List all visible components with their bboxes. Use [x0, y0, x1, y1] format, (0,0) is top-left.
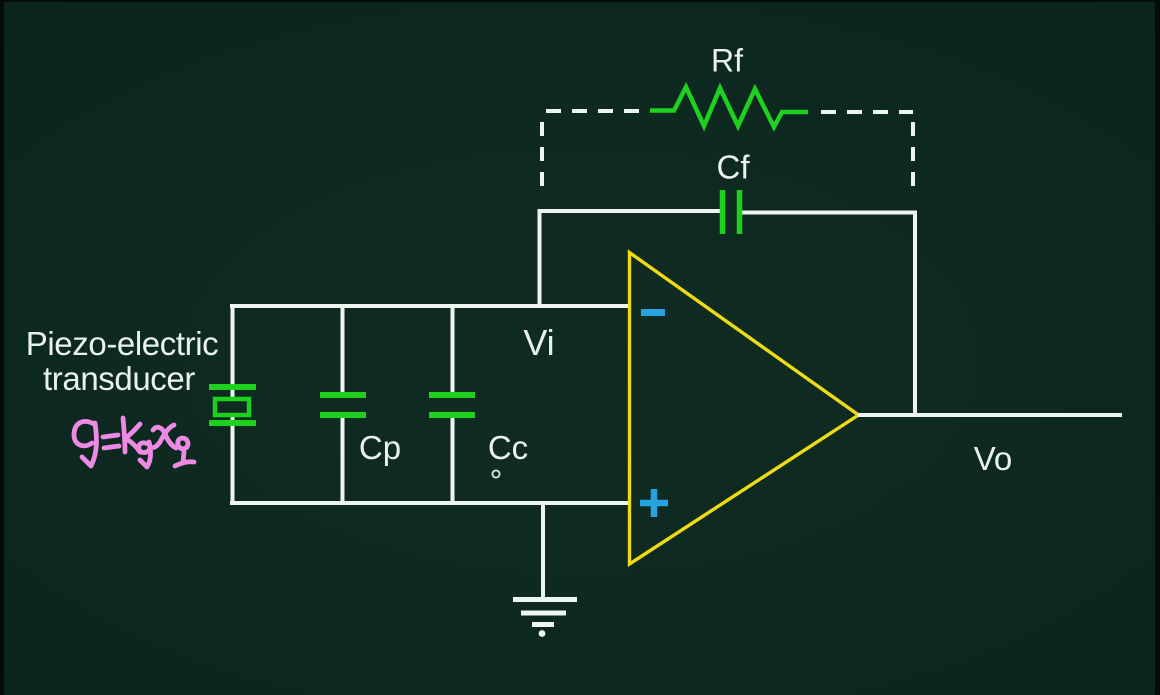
wire: ground stub — [541, 503, 545, 599]
ground — [513, 600, 577, 637]
black border bar right — [1155, 0, 1160, 695]
op-amp U1 — [630, 253, 859, 565]
wire: piezo branch lower segment — [231, 414, 235, 505]
formula q = kq xi (magenta handwriting) — [74, 418, 194, 467]
wire: non-inverting-input bottom rail — [230, 501, 629, 505]
piezo-electric transducer symbol — [209, 387, 256, 423]
wire: dashed box right vertical — [911, 122, 915, 197]
svg-text:Rf: Rf — [711, 43, 743, 79]
svg-text:Vo: Vo — [974, 440, 1013, 477]
svg-text:Piezo-electric: Piezo-electric — [26, 325, 218, 362]
svg-text:Cp: Cp — [359, 429, 401, 466]
wire: Cc branch upper segment — [451, 304, 455, 393]
svg-text:transducer: transducer — [43, 360, 195, 397]
wire: Cf left horizontal — [538, 209, 721, 213]
op-amp non-inverting input label (plus) — [640, 489, 668, 517]
svg-text:Cf: Cf — [717, 149, 751, 186]
resistor Rf — [650, 87, 808, 127]
capacitor Cp — [320, 395, 366, 415]
artifact: small chalk ring near Cc — [492, 470, 499, 477]
svg-text:Vi: Vi — [523, 322, 554, 363]
wire: output — [858, 413, 1122, 417]
wire: Cc branch lower segment — [451, 417, 455, 505]
capacitor Cc — [429, 395, 475, 415]
wire: dashed box left vertical — [540, 122, 544, 197]
black border bar left — [0, 0, 4, 695]
wire: Cp branch lower segment — [341, 417, 345, 505]
wire: feedback left vertical — [538, 211, 542, 309]
wire: Cf right horizontal — [742, 211, 917, 215]
black border bar top — [0, 0, 1160, 2]
wire: feedback right vertical — [913, 211, 917, 416]
wire: inverting-input top rail (Vi node) — [230, 304, 629, 308]
wire: piezo branch upper segment — [231, 304, 235, 397]
wire: Cp branch upper segment — [341, 304, 345, 393]
capacitor Cf — [723, 190, 740, 234]
wire: Rf dashed lead left — [546, 109, 640, 113]
svg-text:Cc: Cc — [488, 429, 528, 466]
op-amp inverting input label (minus) — [641, 309, 665, 316]
wire: Rf dashed lead right — [821, 110, 913, 114]
